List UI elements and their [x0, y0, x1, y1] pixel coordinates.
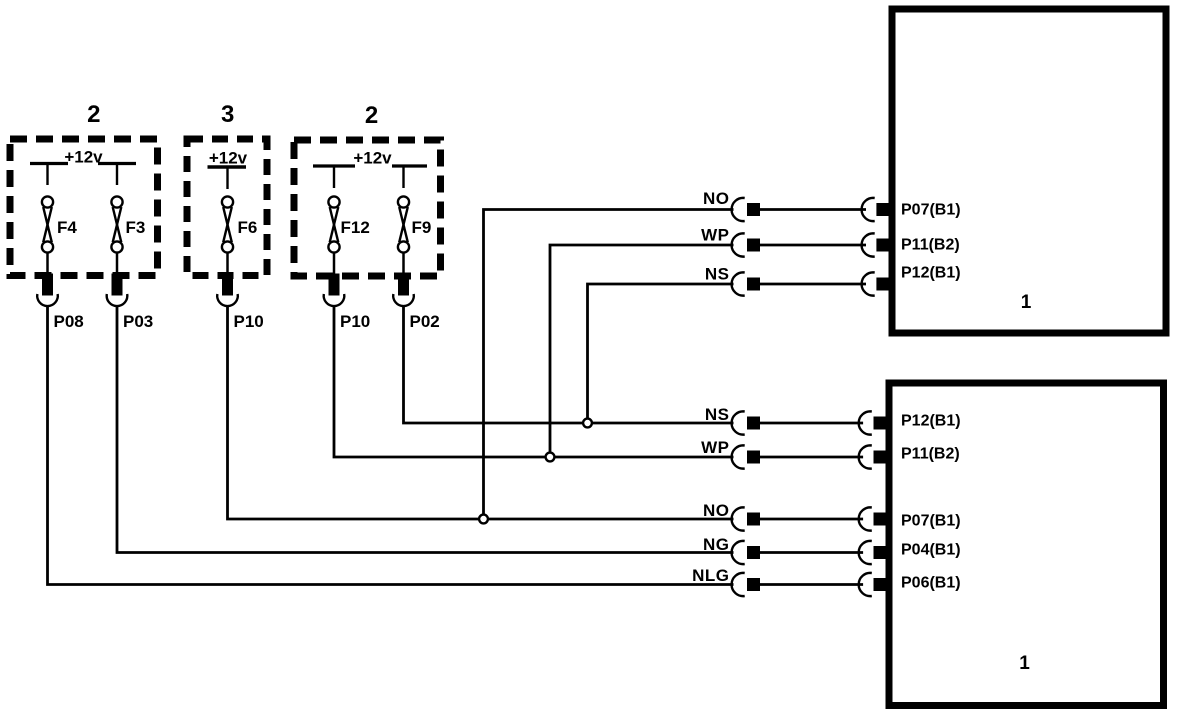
- inline connector on wire NO (female half): [732, 507, 760, 530]
- svg-text:P11(B2): P11(B2): [901, 237, 960, 254]
- svg-text:NG: NG: [703, 535, 730, 554]
- svg-text:3: 3: [221, 101, 234, 128]
- inline connector on wire NS (female half): [732, 411, 760, 434]
- fuse box 2 (left, contains F4 F3): [10, 139, 158, 276]
- svg-text:NO: NO: [703, 501, 730, 520]
- unit-side connector pin for wire NO: [862, 198, 890, 221]
- inline connector on wire NG (female half): [732, 541, 760, 564]
- junction node NS splice: [583, 419, 592, 428]
- +12v supply rail for F3: [98, 164, 136, 186]
- svg-text:P11(B2): P11(B2): [901, 446, 960, 463]
- inline connector on wire WP (female half): [732, 445, 760, 468]
- fuse box 3 (middle, contains F6): [187, 139, 267, 276]
- wire NG: from fuse column x=117.0 down and right to connector: [117, 305, 734, 553]
- wire NLG: from fuse column x=47.5 down and right to connector: [48, 305, 734, 585]
- svg-text:P10: P10: [234, 312, 264, 331]
- unit-side connector pin for wire NS: [859, 411, 887, 434]
- svg-text:P12(B1): P12(B1): [901, 265, 961, 282]
- unit-side connector pin for wire NO: [859, 507, 887, 530]
- wire NO continuation to unit: [760, 208, 866, 211]
- unit-side connector pin for wire NS: [862, 272, 890, 295]
- fuse F9: [398, 196, 409, 277]
- svg-text:NLG: NLG: [692, 566, 729, 585]
- unit-side connector pin for wire NLG: [859, 573, 887, 596]
- +12v supply rail for F12: [313, 166, 355, 188]
- svg-text:P07(B1): P07(B1): [901, 513, 961, 530]
- wire NLG continuation to unit: [760, 583, 863, 586]
- connector pin P03 (fuse box output): [107, 274, 128, 307]
- unit-side connector pin for wire NG: [859, 541, 887, 564]
- wire NO continuation to unit: [760, 518, 863, 521]
- svg-text:F4: F4: [57, 218, 77, 237]
- svg-text:F12: F12: [341, 218, 370, 237]
- wire NS continuation to unit: [760, 283, 866, 286]
- svg-text:1: 1: [1021, 292, 1032, 313]
- wire WP continuation to unit: [760, 456, 863, 459]
- wire NO (lower): from fuse column x=227.5 down and right to connector: [228, 305, 734, 519]
- wire NS (lower): from fuse column x=403.5 down and right to connector: [404, 305, 734, 423]
- junction node WP splice: [546, 453, 555, 462]
- wire WP (lower): from fuse column x=334.0 down and right to connector: [334, 305, 734, 457]
- inline connector on wire WP (female half): [732, 233, 760, 256]
- wire WP continuation to unit: [760, 244, 866, 247]
- inline connector on wire NO (female half): [732, 198, 760, 221]
- svg-text:P03: P03: [123, 312, 153, 331]
- connector pin P08 (fuse box output): [37, 274, 58, 307]
- svg-text:P06(B1): P06(B1): [901, 575, 961, 592]
- svg-text:P02: P02: [410, 312, 440, 331]
- connector pin P10 (fuse box output): [324, 274, 345, 307]
- svg-text:P07(B1): P07(B1): [901, 202, 961, 219]
- svg-text:NS: NS: [705, 405, 730, 424]
- unit-side connector pin for wire WP: [862, 233, 890, 256]
- inline connector on wire NS (female half): [732, 272, 760, 295]
- wire WP (upper branch): [550, 245, 734, 457]
- svg-text:WP: WP: [701, 226, 729, 245]
- wire NS (upper branch): [588, 284, 734, 423]
- svg-text:P12(B1): P12(B1): [901, 413, 961, 430]
- fuse box 2 (right, contains F12 F9): [294, 140, 441, 276]
- svg-text:P10: P10: [340, 312, 370, 331]
- +12v supply rail for F6: [208, 167, 247, 189]
- svg-text:P04(B1): P04(B1): [901, 542, 961, 559]
- junction node NO splice: [479, 515, 488, 524]
- svg-text:NS: NS: [705, 265, 730, 284]
- svg-text:2: 2: [365, 102, 378, 129]
- +12v supply rail for F4: [30, 164, 68, 186]
- svg-text:1: 1: [1019, 653, 1030, 674]
- fuse F6: [222, 196, 233, 277]
- fuse F4: [42, 196, 53, 277]
- connector pin P02 (fuse box output): [393, 274, 414, 307]
- wire NO (upper branch): junction up and right to top unit: [484, 210, 734, 520]
- svg-text:2: 2: [87, 101, 100, 128]
- svg-text:+12v: +12v: [64, 148, 103, 167]
- unit box 1 (top control unit): [892, 9, 1166, 333]
- fuse F12: [328, 196, 339, 277]
- svg-text:F3: F3: [126, 218, 146, 237]
- svg-text:F9: F9: [412, 218, 432, 237]
- svg-text:F6: F6: [238, 218, 258, 237]
- svg-text:+12v: +12v: [353, 149, 392, 168]
- wire NS continuation to unit: [760, 422, 863, 425]
- svg-text:+12v: +12v: [209, 149, 248, 168]
- svg-text:WP: WP: [701, 438, 729, 457]
- unit-side connector pin for wire WP: [859, 445, 887, 468]
- svg-text:NO: NO: [703, 189, 730, 208]
- svg-text:P08: P08: [54, 312, 84, 331]
- connector pin P10 (fuse box output): [217, 274, 238, 307]
- wire NG continuation to unit: [760, 551, 863, 554]
- fuse F3: [111, 196, 122, 277]
- inline connector on wire NLG (female half): [732, 573, 760, 596]
- unit box 1 (bottom control unit): [889, 383, 1164, 706]
- +12v supply rail for F9: [392, 166, 427, 188]
